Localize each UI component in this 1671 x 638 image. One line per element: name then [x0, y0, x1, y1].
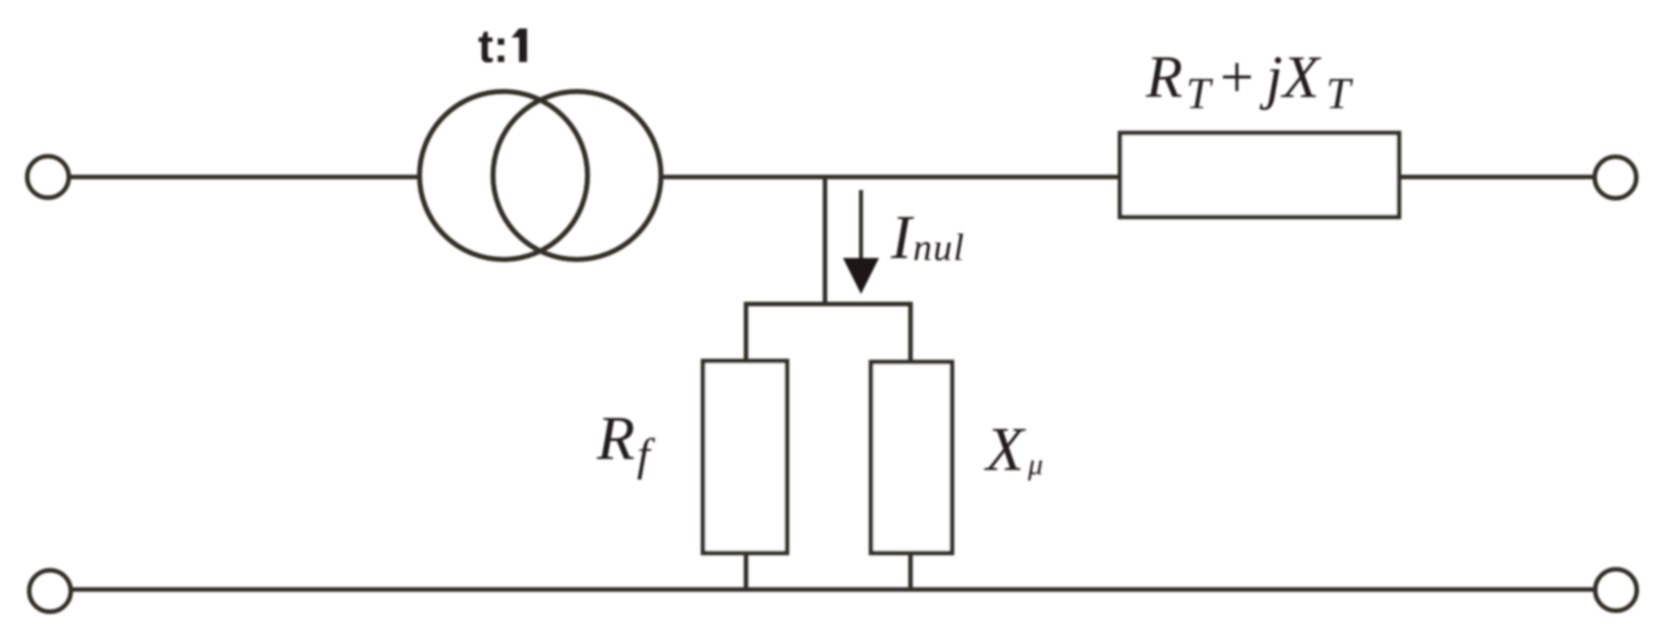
svg-text:T: T [1326, 69, 1354, 118]
svg-text:X: X [983, 416, 1026, 484]
current arrow Inul shaft [859, 190, 863, 262]
wire shunt top bar [746, 304, 911, 363]
svg-text:I: I [890, 204, 915, 272]
current arrow Inul head [843, 258, 879, 294]
svg-text:nul: nul [913, 227, 965, 269]
wire Xu to bottom rail [908, 553, 913, 590]
wire transformer to node A [659, 175, 1122, 180]
svg-text:T: T [1186, 69, 1214, 118]
terminal bottom-left [29, 570, 71, 612]
svg-text:jX: jX [1259, 44, 1322, 110]
svg-text:μ: μ [1027, 448, 1043, 481]
resistor Rf body [703, 361, 787, 553]
wire bottom rail [71, 587, 1593, 592]
svg-text:f: f [637, 429, 656, 480]
svg-text:R: R [1145, 44, 1183, 110]
wire RT to terminal top-right [1399, 175, 1593, 180]
transformer T1 secondary winding [493, 92, 661, 260]
svg-text:R: R [596, 405, 635, 473]
wire node A down to shunt branch [823, 177, 828, 306]
transformer T1 primary winding [420, 92, 588, 260]
resistor RT+jXT body [1120, 133, 1399, 217]
terminal top-right [1595, 157, 1637, 199]
resistor Xu body [871, 362, 952, 553]
wire top-left to transformer [69, 175, 421, 180]
terminal top-left [27, 156, 69, 198]
terminal bottom-right [1595, 569, 1637, 611]
svg-text:t:: t: [478, 20, 509, 72]
svg-text:+: + [1220, 44, 1254, 110]
wire Rf to bottom rail [744, 553, 749, 590]
